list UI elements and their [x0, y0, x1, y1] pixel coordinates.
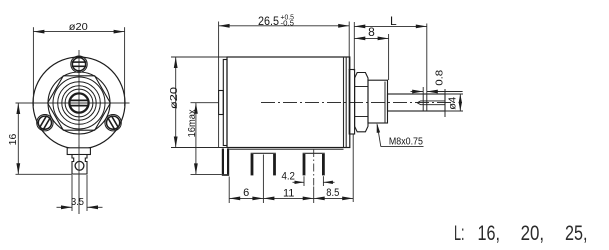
svg-text:11: 11: [283, 188, 294, 200]
svg-text:16,: 16,: [478, 222, 501, 245]
svg-text:20,: 20,: [521, 222, 545, 245]
svg-text:3.5: 3.5: [71, 196, 84, 208]
svg-text:L:: L:: [454, 222, 465, 245]
svg-text:25,: 25,: [565, 222, 588, 245]
svg-text:4.2: 4.2: [281, 170, 295, 182]
svg-text:8.5: 8.5: [326, 187, 339, 199]
svg-text:L: L: [390, 14, 397, 28]
svg-text:M8x0.75: M8x0.75: [389, 137, 423, 148]
svg-text:ø4: ø4: [447, 97, 459, 110]
svg-text:-0.5: -0.5: [281, 18, 295, 27]
svg-text:ø20: ø20: [168, 87, 180, 109]
svg-text:8: 8: [368, 25, 375, 39]
svg-text:0.8: 0.8: [434, 70, 446, 86]
svg-text:16max: 16max: [186, 109, 198, 138]
svg-text:16: 16: [7, 134, 19, 146]
svg-text:6: 6: [243, 187, 249, 199]
svg-text:ø20: ø20: [69, 21, 88, 33]
svg-text:26.5: 26.5: [258, 14, 279, 28]
